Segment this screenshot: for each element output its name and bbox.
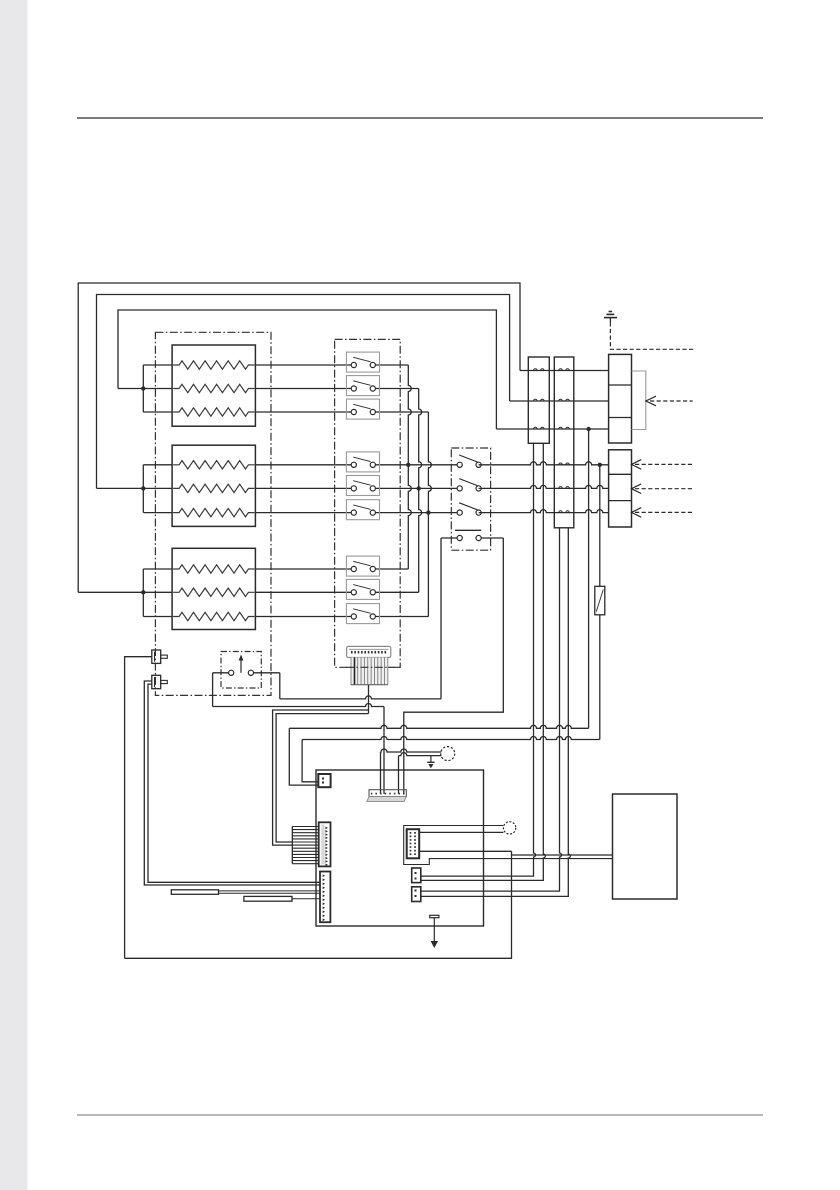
contactor K3 contact 1: [346, 556, 379, 576]
bank E2 left bus wire: [142, 465, 144, 513]
box A winding symbol row y=370.5: [534, 369, 545, 371]
cable sheath bar 2: [244, 896, 292, 901]
contactor K2 contact 1: [346, 452, 379, 472]
resistor element E3.1: [173, 565, 254, 573]
feed-through lower left wires: [144, 681, 320, 885]
lower block arrow feed 3: [632, 508, 642, 518]
board connector X8 housing outline: [404, 826, 613, 865]
contactor K1 contact 2: [346, 376, 379, 396]
resistor element E2.1: [173, 461, 254, 469]
box B winding symbol row y=488.4: [559, 487, 570, 489]
bank E2 row1 stub: [143, 464, 172, 466]
contactor K1 contact 3: [346, 399, 379, 419]
thermostat contact circles: [229, 670, 234, 675]
sensor B2 wire: [419, 831, 503, 833]
wire V384 to board connector: [383, 707, 385, 794]
wire contact K1.2 to bus: [373, 388, 419, 390]
long wire from box B pin1 down to board connector: [421, 528, 562, 891]
heater bank E1 box: [172, 345, 255, 426]
control board outline: [316, 770, 484, 926]
wire aux-left vertical: [440, 538, 442, 699]
wire V302 to board top-left connector: [302, 740, 318, 782]
sensor B1 wire upper: [381, 749, 442, 752]
board connector X7 (left lower): [320, 872, 330, 923]
bank E1 row1 stub: [143, 364, 172, 366]
junction dot bus1/switch row1: [406, 463, 410, 467]
wire V289 to board top-left connector: [289, 728, 318, 785]
lower block arrow feed 1: [632, 460, 642, 470]
contactor K2 contact 3: [346, 500, 379, 520]
fuse F1 feeder lower: [599, 615, 601, 740]
left page margin bar: [0, 0, 28, 1190]
wire T to module box: [512, 854, 613, 856]
box A winding symbol row y=401.0: [534, 399, 545, 401]
feed row 2 wire: [510, 400, 609, 402]
wire switch row2 to lower block: [479, 485, 609, 488]
bank E2 mid feeder wire: [97, 487, 173, 489]
wire H698 thermostat-right to aux-left: [280, 696, 441, 699]
wire aux-right to connector: [404, 538, 504, 794]
box B winding symbol row y=401.0: [559, 399, 570, 401]
top horizontal rule: [77, 117, 763, 119]
thermostat left wire down: [212, 673, 214, 707]
heater bank E2 box: [172, 445, 255, 526]
board connector X3 (right upper): [412, 868, 421, 883]
bottom horizontal rule: [77, 1114, 763, 1116]
external module box: [613, 794, 678, 899]
junction dot bank E1: [141, 386, 145, 390]
long wire from box B pin2 down to board connector: [421, 528, 571, 897]
wire contact K1.1 to bus: [373, 364, 409, 366]
board earth arrow: [433, 918, 435, 941]
fuse F1 feeder upper: [599, 465, 601, 587]
wire switch row3 to lower block: [479, 510, 609, 513]
main switch aux contact circles: [457, 535, 481, 540]
cable sheath bar 1: [171, 890, 218, 895]
resistor element E1.3: [173, 408, 254, 416]
sensor B1 circle: [441, 747, 455, 761]
resistor element E3.2: [173, 588, 254, 596]
bank E1 left bus wire: [142, 365, 144, 412]
contactor K1 contact 1: [346, 352, 379, 372]
sensor B1 wire lower: [399, 753, 442, 756]
bank E3 row3 stub: [143, 616, 172, 618]
wire H958 bottom loop: [125, 851, 512, 958]
thermostat dash-dot boundary: [221, 652, 261, 689]
wire contact K3.1 to bus corner: [373, 568, 409, 570]
wire switch row1 to lower block: [479, 462, 609, 465]
earth symbol (supply): [604, 317, 617, 319]
ribbon cable bundle: [351, 658, 388, 685]
junction dot row1/fuse feeder: [598, 463, 602, 467]
wire H710 to cable bundle: [273, 710, 369, 845]
junction dot bus3/switch row3: [426, 510, 430, 514]
box B winding symbol row y=370.5: [559, 369, 570, 371]
fuse F1 body: [595, 586, 605, 615]
wire bank1 row2 to contact: [255, 388, 353, 390]
board connector X8 (middle): [407, 829, 420, 858]
phase bus 3 (vertical): [428, 412, 431, 617]
sensor B2 circle (dashed): [503, 822, 515, 834]
cable marker box A: [528, 357, 549, 443]
board connector X5 (top): [369, 790, 406, 797]
control wire H739: [302, 737, 600, 740]
board connector X10 (top-left): [318, 774, 330, 787]
wire X8 to junction T: [419, 850, 511, 852]
cable marker box B: [554, 357, 574, 528]
bank E3 left bus wire: [142, 569, 144, 617]
heater bank E3 box: [172, 548, 255, 629]
thermostat actuator arrow: [240, 659, 242, 673]
feed-through upper left wire: [125, 657, 152, 959]
wire bank1 row1 to contact: [255, 364, 353, 366]
contactor K3 contact 2: [346, 579, 379, 599]
main switch pole 2: [457, 479, 481, 491]
junction dot bus2/switch row2: [417, 486, 421, 490]
bank E3 mid feeder wire: [78, 591, 172, 593]
phase bus 2 (vertical): [419, 389, 422, 593]
bank E2 row3 stub: [143, 512, 172, 514]
wire contact K2.1 to main switch: [373, 464, 460, 466]
box B winding symbol row y=464.8: [559, 463, 570, 465]
board connector X4 (right lower): [412, 887, 421, 902]
upper block gray bracket: [632, 371, 646, 430]
main switch pole 3: [457, 503, 481, 515]
ribbon header pins: [351, 651, 353, 654]
earth dashed wire: [610, 322, 693, 349]
contactor K2 contact 2: [346, 476, 379, 496]
wire bank2 row3 to contact: [255, 512, 353, 514]
wire H706 thermostat-left to connector: [213, 704, 384, 707]
upper block arrow L-feed: [646, 396, 656, 406]
wire contact K3.2 to bus corner: [373, 591, 419, 593]
resistor element E2.2: [173, 484, 254, 492]
long wire from box A pin1 down to board connector: [421, 443, 536, 876]
resistor element E2.3: [173, 508, 254, 516]
wire loop L2 (middle feeder): [97, 295, 510, 489]
wire bank2 row1 to contact: [255, 464, 353, 466]
contactor boundary dash-dot over ribbon: [346, 666, 400, 668]
thermostat right wire down: [279, 673, 281, 699]
junction dot bank E2: [141, 486, 145, 490]
main switch aux bar: [455, 529, 481, 531]
contactor K3 contact 3: [346, 604, 379, 624]
resistor element E3.3: [173, 612, 254, 620]
wire contact K1.3 to bus: [373, 411, 429, 413]
lower block arrow feed 2: [632, 484, 642, 494]
box B winding symbol row y=429.0: [559, 427, 570, 429]
box B winding symbol row y=512.6: [559, 511, 570, 513]
wire bank3 row2 to contact: [255, 591, 353, 593]
control wire H728: [289, 725, 588, 728]
bank E3 row1 stub: [143, 568, 172, 570]
junction dot feed row3: [586, 427, 590, 431]
ribbon bundle to board connector X6: [291, 827, 293, 864]
wire bank3 row3 to contact: [255, 616, 353, 618]
lower terminal block X2: [609, 450, 632, 527]
wire bank1 row3 to contact: [255, 411, 353, 413]
resistor element E1.2: [173, 384, 254, 392]
wire contact K2.2 to main switch: [373, 487, 460, 489]
junction dot bank E3: [141, 590, 145, 594]
bank E1 mid feeder wire: [118, 388, 172, 390]
wire bank3 row1 to contact: [255, 568, 353, 570]
thermostat contact wire: [213, 672, 232, 674]
board earth tab: [430, 915, 439, 917]
wire H713 ribbon to cable bundle: [276, 714, 368, 842]
wire loop L1 (outermost feeder): [78, 283, 520, 592]
wire contact K3.3 to bus corner: [373, 616, 429, 618]
bank E1 row3 stub: [143, 411, 172, 413]
wire feed-row3 tap down to H728: [588, 429, 590, 728]
main switch pole 1: [457, 455, 481, 467]
main switch dash-dot boundary: [451, 448, 490, 550]
wire loop L3 (inner feeder): [118, 310, 496, 429]
contactor coil ribbon header: [347, 646, 391, 657]
heater enclosure dash-dot boundary: [155, 332, 271, 695]
wire contact K2.3 to main switch: [373, 512, 460, 514]
resistor element E1.1: [173, 361, 254, 369]
feed row 3 wire: [496, 428, 608, 430]
feed row 1 wire: [520, 370, 609, 372]
wire bank2 row2 to contact: [255, 487, 353, 489]
contactor group dash-dot boundary: [335, 339, 401, 667]
long wire from box A pin2 down to board connector: [421, 443, 546, 880]
box A winding symbol row y=429.0: [534, 427, 545, 429]
main switch aux contact wire: [441, 537, 460, 539]
feed-through terminal lower: [152, 675, 161, 688]
board connector X6 (left upper): [319, 822, 331, 866]
feed-through terminal upper: [152, 650, 161, 663]
phase bus 1 (vertical): [408, 365, 411, 569]
ribbon drain wire: [368, 685, 370, 714]
sensor earth stub: [430, 756, 432, 763]
upper terminal block X1: [609, 354, 632, 443]
